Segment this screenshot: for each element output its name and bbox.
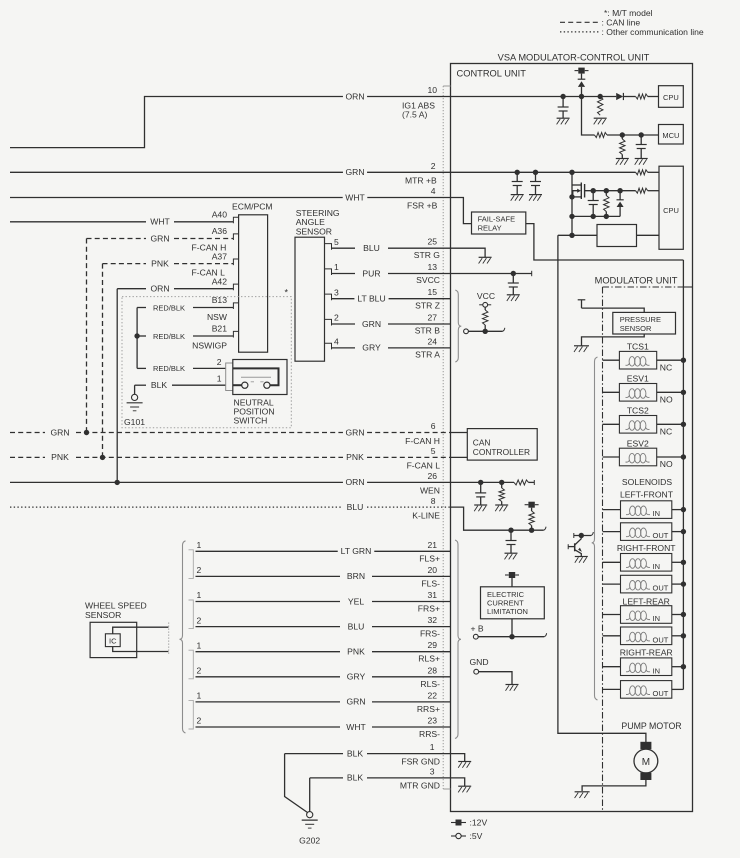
- svg-text:FLS-: FLS-: [421, 578, 440, 588]
- pin 1 tab on steering angle sensor: [325, 269, 332, 275]
- label wire colour RED/BLK (B13): [150, 303, 187, 313]
- wire F-CAN H to ECM A36 (GRN dashed): [87, 238, 147, 240]
- IC MCU: [659, 125, 684, 145]
- wire WHT to pin 23: [196, 726, 341, 728]
- wire pump motor to ground: [582, 780, 646, 791]
- diode D3 (gate clamp, up): [619, 191, 621, 200]
- wire BLK MTR GND: [310, 777, 343, 779]
- svg-text:STR Z: STR Z: [415, 300, 440, 310]
- svg-text:CONTROLLER: CONTROLLER: [473, 447, 530, 457]
- svg-text:BLK: BLK: [347, 773, 364, 783]
- junction bus TCS1: [681, 358, 686, 363]
- pin 2 tab on steering angle sensor: [325, 319, 332, 325]
- wire gate network bottom rail: [572, 215, 620, 217]
- branch WEN/A42 vertical (ORN): [116, 289, 118, 483]
- svg-text:4: 4: [431, 186, 436, 196]
- svg-text:6: 6: [431, 421, 436, 431]
- diode D1 (reverse protect, up): [581, 74, 583, 80]
- svg-text:SENSOR: SENSOR: [296, 226, 332, 236]
- svg-text:2: 2: [334, 313, 339, 323]
- svg-text:CPU: CPU: [663, 93, 679, 102]
- svg-text:M: M: [642, 757, 650, 768]
- svg-text:GND: GND: [470, 657, 489, 667]
- svg-text:31: 31: [427, 590, 437, 600]
- svg-text:LEFT-FRONT: LEFT-FRONT: [620, 490, 674, 500]
- svg-text:STR G: STR G: [414, 250, 441, 260]
- wire +B line: [478, 636, 544, 638]
- wire pressure sensor feed: [582, 308, 645, 312]
- box modulator unit (dash-dot): [603, 286, 684, 288]
- junction bus left-rear IN: [681, 612, 686, 617]
- label wire colour BLK (MTR GND): [344, 773, 365, 783]
- wire WEN end tick: [533, 480, 535, 485]
- legend 12V symbol: [451, 822, 466, 824]
- motor pump motor M: [640, 742, 651, 749]
- svg-text:VCC: VCC: [477, 291, 495, 301]
- svg-text:RELAY: RELAY: [478, 224, 502, 233]
- junction IG1-R1: [598, 94, 603, 99]
- svg-text:PNK: PNK: [346, 452, 364, 462]
- svg-text:SOLENOIDS: SOLENOIDS: [622, 477, 672, 487]
- pin B13 tab on ECM/PCM: [233, 303, 238, 309]
- svg-text:GRN: GRN: [345, 167, 364, 177]
- bus solenoid supply (right): [682, 260, 684, 689]
- box wheel speed sensor: [90, 622, 137, 657]
- pin 5 tab on steering angle sensor: [325, 244, 332, 250]
- svg-text:26: 26: [427, 471, 437, 481]
- label wire colour BLU: [361, 243, 383, 253]
- svg-text:NO: NO: [660, 395, 673, 405]
- pin 3 tab on steering angle sensor: [325, 294, 332, 300]
- svg-text:2: 2: [197, 565, 202, 575]
- label wire colour PNK: [345, 647, 368, 657]
- svg-text:LT BLU: LT BLU: [357, 294, 385, 304]
- svg-text:RLS+: RLS+: [418, 654, 440, 664]
- wire Q1 gate lead: [585, 190, 636, 192]
- svg-text:F-CAN L: F-CAN L: [192, 267, 226, 277]
- switch contact path: [233, 368, 279, 385]
- wire MTR +B feed (GRN): [10, 171, 343, 173]
- ground G101: [134, 385, 136, 394]
- solenoid ESV1 (ESV1): [603, 391, 620, 393]
- sensor PRESSURE SENSOR: [613, 312, 676, 334]
- label wire colour BRN: [344, 571, 367, 581]
- capacitor C2 to ground: [640, 135, 642, 145]
- supply 12V (IG1 rail): [575, 70, 579, 72]
- svg-text:ORN: ORN: [345, 477, 364, 487]
- svg-text:MCU: MCU: [662, 131, 679, 140]
- solenoid ESV2 (ESV2): [603, 456, 620, 458]
- junction F-CAN H: [84, 430, 89, 435]
- junction WEN-R9: [499, 480, 504, 485]
- supply 5V circle (GND ref): [474, 669, 479, 674]
- svg-text:FSR GND: FSR GND: [401, 756, 440, 766]
- label wire colour BLU: [345, 622, 367, 632]
- svg-text:TCS2: TCS2: [627, 406, 649, 416]
- svg-text:F-CAN H: F-CAN H: [192, 242, 227, 252]
- ground G202: [307, 812, 313, 818]
- brace solenoid low-side group: [592, 357, 598, 700]
- capacitor C7 to ground: [480, 482, 482, 493]
- label wire colour WHT: [344, 722, 369, 732]
- svg-text:1: 1: [217, 374, 222, 384]
- svg-text:OUT: OUT: [653, 689, 669, 698]
- svg-text:20: 20: [427, 565, 437, 575]
- junction Q2 collector: [579, 533, 584, 538]
- svg-text:NC: NC: [660, 427, 672, 437]
- svg-text:+ B: + B: [471, 623, 484, 633]
- label wire colour ORN (A42): [148, 284, 172, 294]
- svg-text:IN: IN: [653, 562, 661, 571]
- label wire colour GRY: [344, 672, 368, 682]
- svg-text:1: 1: [197, 590, 202, 600]
- junction bus right-front IN: [681, 560, 686, 565]
- label wire colour GRN (A36): [148, 234, 172, 244]
- brace STR signal group: [455, 290, 461, 362]
- solenoid left-rear OUT (OUT): [603, 635, 621, 637]
- label wire colour WHT (FSR +B): [343, 193, 368, 203]
- svg-text:A40: A40: [212, 210, 228, 220]
- svg-text:STR B: STR B: [415, 326, 441, 336]
- svg-text:SENSOR: SENSOR: [620, 324, 652, 333]
- svg-text:MTR +B: MTR +B: [405, 175, 437, 185]
- svg-text:STR A: STR A: [415, 350, 440, 360]
- connector bracket (wheel sensor pair): [189, 700, 194, 729]
- svg-text:RED/BLK: RED/BLK: [153, 332, 185, 341]
- label wire colour BLK: [148, 380, 169, 390]
- pin B21 tab on ECM/PCM: [233, 331, 238, 337]
- label wire colour WHT (A40): [148, 217, 173, 227]
- svg-text:B21: B21: [212, 324, 228, 334]
- wire LT GRN to pin 21: [196, 550, 341, 552]
- svg-text:3: 3: [334, 287, 339, 297]
- svg-text:WHT: WHT: [345, 192, 365, 202]
- wire BLU sensor to pin 25: [332, 247, 356, 249]
- svg-text:BLU: BLU: [363, 243, 380, 253]
- wire FSR +B to fail-safe relay: [451, 198, 472, 224]
- wire PUR sensor to pin 13: [332, 273, 356, 275]
- wire K-LINE row (BLU dotted): [10, 506, 343, 508]
- svg-text:FRS-: FRS-: [420, 629, 440, 639]
- svg-text:MODULATOR UNIT: MODULATOR UNIT: [595, 275, 678, 285]
- svg-text:BRN: BRN: [347, 571, 365, 581]
- label wire colour RED/BLK (switch): [150, 363, 187, 373]
- svg-text:5: 5: [431, 446, 436, 456]
- svg-text:1: 1: [197, 691, 202, 701]
- svg-text:A37: A37: [212, 251, 228, 261]
- brace wheel-sensor connector group: [180, 541, 186, 733]
- wire BLK to neutral position switch pin 1: [135, 384, 146, 386]
- legend sample: CAN line (dashed): [560, 21, 599, 23]
- svg-text:FSR +B: FSR +B: [407, 201, 438, 211]
- wire pressure sensor return to ground: [582, 334, 645, 343]
- wire WHT to ECM A40: [10, 221, 146, 223]
- label wire colour GRN right: [343, 428, 367, 438]
- svg-text:GRN: GRN: [345, 427, 364, 437]
- IC CPU (main): [659, 166, 683, 249]
- wire GRY to pin 28: [196, 676, 341, 678]
- resistor R3 (to MCU): [595, 133, 608, 138]
- wire K-LINE end tick: [544, 527, 546, 531]
- svg-text:2: 2: [431, 161, 436, 171]
- wire MCU branch: [582, 97, 595, 136]
- resistor R7 (gate drive from CPU): [636, 188, 648, 193]
- wire driver to CPU: [637, 234, 660, 236]
- wire PNK to pin 29: [196, 651, 341, 653]
- svg-text:G202: G202: [299, 836, 320, 846]
- svg-text:NSWIGP: NSWIGP: [192, 340, 227, 350]
- svg-text:2: 2: [197, 615, 202, 625]
- svg-text:29: 29: [427, 640, 437, 650]
- label wire colour BLK (FSR GND): [344, 749, 365, 759]
- junction VCC pull-up node: [483, 329, 488, 334]
- solenoid left-front OUT (OUT): [603, 531, 621, 533]
- connector face line (wheel speed sensor): [168, 623, 170, 655]
- svg-text:BLK: BLK: [151, 380, 168, 390]
- junction MCU-R4: [620, 132, 625, 137]
- junction IG1-D1: [579, 94, 584, 99]
- supply 5V circle on STR pull line: [464, 329, 469, 334]
- svg-text:25: 25: [427, 237, 437, 247]
- svg-text:SVCC: SVCC: [416, 275, 440, 285]
- svg-text:YEL: YEL: [348, 596, 364, 606]
- svg-text:13: 13: [427, 262, 437, 272]
- IC box: [105, 634, 120, 647]
- label wire colour GRN: [359, 319, 383, 329]
- svg-text:GRN: GRN: [50, 427, 69, 437]
- switch movable blade (open): [241, 376, 271, 378]
- solenoid TCS2 (TCS2): [603, 423, 620, 425]
- svg-text:NO: NO: [660, 459, 673, 469]
- svg-text:24: 24: [427, 336, 437, 346]
- junction MTR-C4: [533, 170, 538, 175]
- wire MTR GND to chassis inside: [451, 778, 465, 786]
- svg-text:OUT: OUT: [653, 584, 669, 593]
- svg-text:SWITCH: SWITCH: [234, 415, 268, 425]
- wire ORN to ECM A42: [117, 288, 146, 290]
- IC CPU (upper): [659, 86, 684, 108]
- wire FSR GND down to G202: [285, 754, 308, 813]
- wire SVCC end tick: [531, 271, 533, 276]
- junction MTR-Q1: [569, 170, 574, 175]
- resistor R4 to ground: [620, 139, 625, 155]
- resistor R11 (K-LINE pull-up): [531, 508, 533, 511]
- svg-text:PNK: PNK: [347, 647, 365, 657]
- svg-text::12V: :12V: [470, 818, 488, 828]
- label wire colour GRN: [344, 697, 368, 707]
- svg-text:RRS-: RRS-: [419, 729, 440, 739]
- junction WEN-C7: [478, 480, 483, 485]
- wire IG1 ABS feed (ORN): [10, 97, 343, 148]
- supply 5V (+B): [473, 634, 478, 639]
- junction bus ESV1: [681, 390, 686, 395]
- svg-text:WEN: WEN: [420, 486, 440, 496]
- wire Q1 node to driver box: [558, 234, 597, 236]
- svg-text:3: 3: [430, 766, 435, 776]
- label wire colour GRY: [360, 343, 384, 353]
- wire WEN inside: [451, 481, 515, 483]
- wire FSR GND to chassis inside: [451, 754, 465, 762]
- capacitor C1 to ground: [562, 97, 564, 108]
- box VSA modulator-control unit: [451, 64, 693, 812]
- wire R2 to CPU: [648, 96, 659, 98]
- junction gate-D3: [617, 188, 622, 193]
- switch contact right: [264, 382, 270, 388]
- supply 12V (electric current limitation): [505, 574, 509, 576]
- wire BRN to pin 20: [196, 575, 341, 577]
- wire RED/BLK to ECM B13 (NSW): [137, 307, 146, 309]
- svg-text:IN: IN: [653, 509, 661, 518]
- svg-text:LT GRN: LT GRN: [341, 546, 372, 556]
- connector bracket (wheel sensor pair): [189, 550, 194, 579]
- junction +B node: [509, 634, 514, 639]
- svg-text:1: 1: [197, 640, 202, 650]
- diode D2 (series to CPU): [616, 93, 623, 100]
- svg-text:NSW: NSW: [207, 312, 228, 322]
- svg-text:5: 5: [334, 237, 339, 247]
- label wire colour PNK right: [344, 452, 367, 462]
- svg-text:27: 27: [427, 313, 437, 323]
- svg-text:ESV2: ESV2: [627, 438, 649, 448]
- label wire colour LT GRN: [338, 546, 375, 556]
- label wire colour PNK (A37): [149, 259, 172, 269]
- svg-text:RIGHT-REAR: RIGHT-REAR: [620, 648, 673, 658]
- controller CAN CONTROLLER: [451, 432, 468, 434]
- svg-text:*: *: [285, 288, 289, 298]
- svg-text:2: 2: [197, 716, 202, 726]
- box ECM/PCM: [239, 215, 268, 352]
- label wire colour PNK left: [49, 452, 72, 462]
- solenoid right-front OUT (OUT): [603, 583, 621, 585]
- svg-text:21: 21: [427, 540, 437, 550]
- wire WEN row (ORN): [10, 481, 343, 483]
- resistor R6 (gate): [605, 191, 607, 196]
- wire BLK FSR GND: [285, 753, 343, 755]
- wire F-CAN L row (PNK dashed): [10, 456, 45, 458]
- svg-text:4: 4: [334, 337, 339, 347]
- pin A36 tab on ECM/PCM: [233, 234, 238, 240]
- wire NSW bus vertical: [136, 308, 138, 369]
- junction SVCC-C6: [511, 271, 516, 276]
- svg-text:IN: IN: [653, 666, 661, 675]
- resistor R9 to ground: [501, 482, 503, 488]
- svg-text:(7.5 A): (7.5 A): [402, 109, 427, 119]
- svg-text:BLU: BLU: [348, 621, 365, 631]
- svg-text:CONTROL UNIT: CONTROL UNIT: [457, 68, 527, 78]
- legend sample: Other communication line (dotted): [560, 31, 600, 33]
- svg-text:MTR GND: MTR GND: [400, 781, 440, 791]
- box steering angle sensor: [295, 237, 325, 361]
- switch contact left: [242, 382, 248, 388]
- label wire colour YEL: [345, 597, 366, 607]
- svg-text:IC: IC: [109, 636, 117, 645]
- svg-text:IN: IN: [653, 614, 661, 623]
- switch NEUTRAL POSITION SWITCH body: [233, 360, 287, 395]
- wire 12V to ECL box: [511, 578, 513, 587]
- svg-text:GRN: GRN: [346, 697, 365, 707]
- svg-text:ECM/PCM: ECM/PCM: [232, 202, 273, 212]
- svg-text:SENSOR: SENSOR: [85, 610, 121, 620]
- wire FSR +B feed (WHT): [10, 197, 343, 199]
- ground Q2 emitter: [575, 556, 588, 558]
- svg-text:BLK: BLK: [347, 748, 364, 758]
- svg-text:1: 1: [430, 742, 435, 752]
- resistor R8 (VCC pull-up): [484, 307, 486, 310]
- junction bus right-rear IN: [681, 664, 686, 669]
- svg-text:32: 32: [427, 615, 437, 625]
- pin A42 tab on ECM/PCM: [233, 284, 238, 290]
- svg-text:23: 23: [427, 716, 437, 726]
- svg-text:22: 22: [427, 690, 437, 700]
- relay FAIL-SAFE RELAY: [472, 212, 526, 234]
- wire fail-safe relay output to solenoid bus: [526, 224, 684, 260]
- solenoid right-rear OUT: [603, 688, 621, 690]
- wire STR G to ground: [451, 248, 486, 251]
- wire LT BLU sensor to pin 15: [332, 298, 356, 300]
- svg-text:F-CAN H: F-CAN H: [405, 436, 440, 446]
- solenoid TCS1 (TCS1): [603, 359, 620, 361]
- label wire colour LT BLU: [354, 294, 388, 304]
- svg-text:CAN: CAN: [473, 438, 491, 448]
- junction bus TCS2: [681, 422, 686, 427]
- solenoid right-rear IN (IN): [603, 666, 621, 668]
- junction bus left-front IN: [681, 507, 686, 512]
- solenoid left-rear IN (IN): [603, 614, 621, 616]
- svg-text:PNK: PNK: [51, 452, 69, 462]
- svg-text:2: 2: [217, 357, 222, 367]
- svg-text:RRS+: RRS+: [417, 704, 440, 714]
- wire F-CAN H row (GRN dashed): [10, 432, 45, 434]
- legend 5V symbol: [451, 835, 466, 837]
- svg-text::5V: :5V: [470, 831, 483, 841]
- connector bracket (neutral position switch): [226, 363, 233, 391]
- solenoid left-front IN (IN): [603, 509, 621, 511]
- connector bracket (wheel sensor pair): [189, 650, 194, 679]
- wire IG1 rail inside: [451, 96, 617, 98]
- svg-text:G101: G101: [124, 417, 145, 427]
- branch F-CAN H vertical (dashed): [86, 239, 88, 433]
- capacitor C8 to ground: [510, 530, 512, 540]
- box M/T model option (dotted): [122, 297, 291, 428]
- wire K-LINE inside: [451, 507, 544, 530]
- svg-text:RIGHT-FRONT: RIGHT-FRONT: [617, 543, 676, 553]
- junction bus left-front OUT: [681, 529, 686, 534]
- wire R3 to MCU: [607, 134, 659, 136]
- wire RED/BLK to neutral position switch pin 2: [137, 367, 146, 369]
- block ELECTRIC CURRENT LIMITATION: [481, 587, 545, 619]
- svg-text:NC: NC: [660, 362, 672, 372]
- svg-text:A42: A42: [212, 276, 228, 286]
- svg-text:OUT: OUT: [653, 635, 669, 644]
- svg-text:WHT: WHT: [346, 722, 366, 732]
- junction WEN: [115, 480, 120, 485]
- pin A40 tab on ECM/PCM: [233, 217, 238, 223]
- wire GRN to pin 22: [196, 701, 341, 703]
- label wire colour ORN (WEN): [343, 477, 367, 487]
- svg-text:: CAN line: : CAN line: [602, 17, 641, 27]
- svg-text:: Other communication line: : Other communication line: [602, 27, 704, 37]
- svg-text:PNK: PNK: [151, 258, 169, 268]
- connector bracket (wheel sensor pair): [189, 600, 194, 629]
- svg-text:GRN: GRN: [150, 233, 169, 243]
- capacitor C4 to ground: [535, 172, 537, 181]
- supply VCC (5V): [483, 302, 488, 307]
- svg-text:PUMP MOTOR: PUMP MOTOR: [621, 721, 681, 731]
- svg-text:PUR: PUR: [362, 268, 380, 278]
- label wire colour RED/BLK (B21): [150, 331, 187, 341]
- wire YEL to pin 31: [196, 601, 341, 603]
- resistor R10 (WEN series): [514, 480, 529, 485]
